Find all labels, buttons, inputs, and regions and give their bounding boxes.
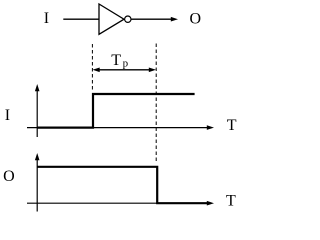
svg-text:T: T: [226, 193, 236, 210]
waveform I (step low to high): [37, 94, 195, 128]
dimension arrow Tp (double-headed): [97, 69, 152, 71]
axis Y (output waveform, vertical with arrow): [36, 157, 38, 212]
waveform O (step high to low): [37, 167, 208, 203]
dashed line (right, output transition): [155, 44, 157, 164]
svg-text:I: I: [44, 10, 49, 27]
svg-text:O: O: [3, 168, 15, 185]
dashed line (left, input transition): [91, 44, 93, 92]
wire (inverter input): [63, 18, 99, 20]
svg-text:p: p: [123, 57, 129, 69]
svg-text:T: T: [111, 52, 121, 69]
axis T (output waveform, horizontal with arrow): [27, 202, 208, 204]
inverter U1 bubble: [125, 16, 131, 22]
svg-text:O: O: [190, 11, 202, 28]
axis T (input waveform, horizontal with arrow): [27, 127, 208, 129]
wire (inverter output with arrow): [131, 18, 172, 20]
svg-text:T: T: [227, 117, 237, 134]
axis Y (input waveform, vertical with arrow): [36, 88, 38, 137]
inverter U1 triangle: [99, 4, 124, 34]
svg-text:I: I: [5, 107, 10, 124]
